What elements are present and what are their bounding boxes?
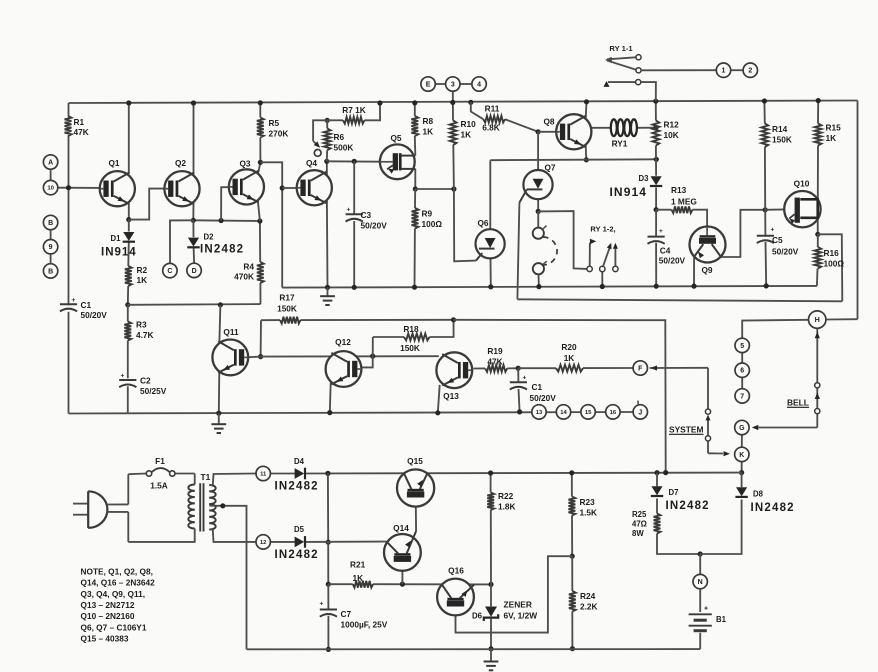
wire Q14 emitter to Q15 base [415,498,417,531]
label T1 [201,472,211,482]
resistor R15 1K [815,123,842,146]
terminal G [735,420,749,434]
arrow into G [752,425,759,430]
diode D2 IN2482 [187,233,244,256]
capacitor C1 50/20V (filter) [510,375,556,404]
wire R24 bottom lead [571,612,573,649]
wire R20 right lead to F [583,367,633,369]
terminal J [633,405,647,419]
svg-text:Q5: Q5 [390,133,401,143]
svg-text:50/20V: 50/20V [530,393,557,403]
svg-text:R9: R9 [422,209,433,219]
svg-text:150K: 150K [277,303,297,313]
svg-text:RY 1-1: RY 1-1 [609,44,633,53]
wire Q1 collector [128,103,130,174]
ground below zener [484,662,499,671]
svg-text:R16: R16 [824,248,840,258]
wire C1 bottom lead [519,389,520,412]
wire Q9 emitter drop [693,257,695,286]
terminal H [809,311,826,328]
svg-text:10K: 10K [664,130,679,140]
svg-text:R24: R24 [580,591,596,601]
resistor R11 6.8K [482,103,505,132]
wire terminal 3 drop [452,91,454,120]
wire Q6-anode node160 wire [490,158,656,161]
ground below Q4 [320,296,335,305]
node C4 bus [654,284,659,289]
wire B-9 link [50,230,52,240]
diode D1 IN914 [101,232,137,259]
node D3-R13-C4 junction [654,207,659,212]
svg-text:6V, 1/2W: 6V, 1/2W [504,611,538,621]
wire R18 left lead [373,336,404,338]
wire Q14 base stem [401,565,403,584]
resistor R19 47K [485,346,507,372]
wire R17 right lead [301,319,454,321]
wire SYSTEM to K [708,441,723,454]
wire Q2 emitter [192,203,194,221]
terminal 12 [256,535,270,549]
wire zener ground stub [490,649,492,661]
node Q2 emitter junction [191,218,196,223]
RY1-2 fixed pole 1 [587,239,596,272]
node D5 line junction [326,540,331,545]
wire D8 bottom lead [700,500,741,555]
svg-text:R7 1K: R7 1K [342,105,366,115]
wire R11 right lead [505,119,538,132]
wire to N terminal [699,554,701,574]
svg-text:C: C [167,268,172,275]
wire fuse loop top [128,473,194,476]
wire D3 to R13 node [655,188,657,210]
svg-text:500K: 500K [334,143,354,153]
arrow bell arm [815,393,820,400]
wire primary top drop [194,474,196,485]
capacitor C1 50/20V (left) [60,297,107,320]
svg-text:R21: R21 [350,560,366,570]
wire bell switch mid [816,388,818,409]
node R17-R18 junction [451,317,456,322]
svg-text:47Ω: 47Ω [632,520,647,529]
wire link 6-7 [741,377,743,388]
terminal C [163,263,177,277]
zener diode D6 6V 1/2W [472,600,537,622]
node Q5 emitter junction [413,186,418,191]
wire C1 top lead [517,368,519,382]
svg-text:R22: R22 [498,491,514,501]
wire R12 top lead [655,101,657,120]
svg-text:Q3, Q4, Q9, Q11,: Q3, Q4, Q9, Q11, [81,589,146,599]
svg-text:6.8K: 6.8K [482,123,500,133]
svg-text:IN2482: IN2482 [275,549,319,561]
wire R22 bottom lead [490,510,492,584]
wire R13 right lead to Q9 [693,210,708,227]
wire Q7 gate drop [517,203,519,300]
wire 9-B link [50,254,52,264]
fuse F1 1.5A [146,456,175,491]
node Q11 base junction [258,354,263,359]
node center tap [220,503,225,508]
wire R6 wiper arrow [313,141,320,148]
node D4 output junction [325,471,330,476]
svg-text:1K: 1K [423,127,434,137]
svg-text:R3: R3 [136,320,147,330]
node Q14 base junction [400,582,405,587]
wire left rail lower segment [68,312,70,414]
svg-text:J: J [638,409,642,416]
wire right rail down to H [857,101,859,320]
svg-text:1.5K: 1.5K [580,508,598,518]
wire R11 left lead [471,102,484,119]
svg-text:T1: T1 [201,472,211,482]
terminal K [735,447,749,461]
wire R23 top lead [571,473,573,497]
diode D3 IN914 [610,174,663,199]
svg-text:R15: R15 [826,123,842,133]
svg-text:C1: C1 [81,300,92,310]
node Q4 base tee [280,185,285,190]
node C7 bus [326,647,331,652]
node R19-R20-C1 junction [516,366,521,371]
battery B1 [689,606,727,631]
node R14-C5-Q10 junction [763,207,768,212]
wire R7 right lead [365,103,381,120]
wire lower bus y287 [282,286,817,288]
wire R3 to C2 [127,341,129,379]
wire Q10-emitter to gate line [818,234,843,301]
svg-text:IN2482: IN2482 [751,502,795,514]
wire Q5 collector lead [401,155,416,157]
svg-text:1.8K: 1.8K [498,502,516,512]
node R23 rail [569,470,574,475]
wire R9 bottom lead [414,229,416,288]
wire 11 to D4 [271,473,295,475]
capacitor C5 50/20V [757,227,799,257]
wire link 5-6 [741,353,743,363]
transistor Q8 [543,114,591,149]
wire terminal E to 3 [435,83,445,85]
wire R23 bottom lead [571,516,573,557]
svg-text:+: + [121,373,125,380]
node R14 rail [762,98,767,103]
svg-text:C1: C1 [532,382,543,392]
node junction 10-rail [66,185,71,190]
wire Q16 base loop [456,556,573,632]
wire Q3-collector to Q4-base riser [260,162,282,287]
terminal 6 [735,363,749,377]
svg-text:Q6, Q7 – C106Y1: Q6, Q7 – C106Y1 [81,622,147,632]
svg-text:Q15: Q15 [407,456,423,466]
svg-text:Q6: Q6 [477,218,488,228]
svg-text:47K: 47K [487,356,502,366]
svg-text:B: B [48,220,53,227]
svg-text:3: 3 [451,82,455,89]
wire sensor upper lead [537,211,539,227]
svg-text:D5: D5 [294,525,305,534]
transistor Q3 [229,159,264,205]
svg-text:C4: C4 [660,246,671,256]
node R22 zener junction [488,582,493,587]
svg-text:F: F [638,366,643,373]
svg-text:16: 16 [610,410,617,416]
svg-text:C3: C3 [361,210,372,220]
wire plug upper [127,474,129,504]
svg-text:IN2482: IN2482 [666,500,710,512]
wire R21 to zener node [373,583,491,585]
svg-text:1.5A: 1.5A [150,481,168,491]
wire sensor lower lead [538,274,540,286]
svg-text:Q4: Q4 [306,158,317,168]
wire Q11 base lead [248,356,260,359]
node R6 bottom junction [324,159,329,164]
diode D7 IN2482 [651,486,710,512]
svg-text:R18: R18 [403,324,419,334]
wire C4 bottom lead [655,243,657,286]
svg-text:R14: R14 [772,124,788,134]
wire Q4 base lead [282,187,297,189]
wire R4 bottom lead [259,283,261,304]
resistor R1 47K [65,116,89,137]
svg-text:470K: 470K [234,272,254,282]
wire H to column 567 [742,320,808,338]
svg-text:D1: D1 [111,234,122,243]
svg-text:150K: 150K [400,343,420,353]
svg-text:C2: C2 [140,376,151,386]
transistor Q10 [784,179,820,228]
svg-text:C7: C7 [341,609,352,619]
wire D7 top lead [656,473,658,487]
wire R5 bottom lead [259,138,261,163]
svg-text:2.2K: 2.2K [580,602,598,612]
svg-text:Q13: Q13 [443,391,459,401]
svg-text:50/20V: 50/20V [772,247,799,257]
capacitor C4 50/20V [648,228,686,266]
svg-text:Q7: Q7 [544,163,555,173]
svg-text:50/25V: 50/25V [140,386,167,396]
terminal 10 [43,180,57,194]
node K bus [739,470,744,475]
arrow into H [815,332,820,339]
node R24 bus [570,646,575,651]
arrow into F [651,365,658,370]
wire Q1 emitter [128,204,130,220]
wire node189 link [415,188,454,190]
AC plug [73,491,128,528]
wire zener top lead [490,584,492,606]
svg-text:F1: F1 [155,456,165,466]
svg-text:7: 7 [740,393,744,400]
node Q10 emitter junction [815,232,820,237]
resistor R4 470K [234,262,264,284]
wire Q11 emitter [218,371,221,414]
svg-text:11: 11 [260,472,267,478]
resistor R5 270K [257,118,288,139]
wire D7 to R25 [656,499,658,514]
terminal 11 [256,466,270,480]
node R18 vert tee [370,354,375,359]
svg-text:Q14: Q14 [393,523,409,533]
terminal 15 [581,405,595,419]
svg-text:+: + [347,207,351,214]
wire C2 to bus [127,386,129,413]
SYSTEM switch contact upper [705,409,710,414]
pot R6 wiper terminal [314,150,321,157]
wire R15 to Q10 collector [817,146,819,200]
wire cathode to RY1-2 [538,211,587,269]
node supply-R17 feed [663,470,668,475]
wire to terminal C [170,220,193,263]
svg-text:+: + [320,601,324,608]
svg-text:ZENER: ZENER [504,600,532,610]
capacitor C3 50/20V [346,207,388,231]
svg-text:R1: R1 [74,117,85,127]
node Q11 collector tee [218,302,223,307]
svg-text:BELL: BELL [787,397,809,407]
resistor R7 1K [342,105,366,124]
node R2-R3 junction [125,302,130,307]
node Q12 emitter bus [327,410,332,415]
wire R25 bottom lead [657,534,700,555]
svg-text:D8: D8 [753,490,764,499]
transistor Q15 [397,456,434,507]
node Q3 emitter R4 junction [257,218,262,223]
svg-text:K: K [739,452,744,459]
thyristor Q7 [519,163,556,203]
wire bottom bus y413 [69,412,633,414]
node C3 tee [352,159,357,164]
node Q6 cathode bus [488,284,493,289]
wire D1 cathode to R2 [127,242,130,266]
svg-text:R11: R11 [485,103,500,113]
svg-text:R23: R23 [580,497,596,507]
svg-text:1: 1 [722,68,726,75]
svg-text:14: 14 [560,410,567,416]
svg-text:R4: R4 [243,262,254,272]
wire D2 cathode to D [193,247,196,263]
svg-text:IN914: IN914 [101,247,137,259]
wire D5 to Q14 collector [306,541,387,543]
J key stub [637,401,639,405]
wire plug lower [127,512,129,542]
terminal 9 [43,240,57,254]
svg-text:R17: R17 [279,292,295,302]
wire SYSTEM switch drop [707,368,709,409]
wire R22 top lead [490,473,492,493]
svg-text:1000µF, 25V: 1000µF, 25V [341,620,388,630]
svg-text:B1: B1 [716,615,727,624]
wire C3 lower lead [353,221,355,287]
wire bottom supply bus y649 [247,648,701,650]
terminal A [43,155,57,169]
svg-text:R5: R5 [269,118,280,128]
terminal 2 [743,63,757,77]
transistor Q2 [164,158,199,206]
wire R18 right lead [430,320,454,337]
svg-text:+: + [659,228,663,235]
wire R12 to D3 [655,146,657,176]
svg-text:Q1: Q1 [108,158,119,168]
wire C5 bottom lead [765,242,768,286]
sensor contact lower [533,261,547,274]
wire R4 top lead [259,221,261,262]
svg-text:8W: 8W [632,529,644,538]
svg-text:+: + [523,375,527,382]
diode D8 IN2482 [735,487,794,514]
RY1-2 fixed pole 2 [613,243,618,272]
relay contact RY1-2 label [590,225,615,234]
wire ground stub Q4 [327,287,329,295]
wire gate line y301 [517,299,842,301]
svg-text:Q2: Q2 [175,158,186,168]
node R11 rail [468,100,473,105]
svg-text:1 MEG: 1 MEG [671,196,697,206]
wire node356 [261,355,439,357]
node Q1 emitter junction [126,217,131,222]
wire C7 to bottom bus [327,616,329,650]
wire Q3 emitter [258,201,260,221]
node sensor bus [536,284,541,289]
svg-text:50/20V: 50/20V [81,310,108,320]
transistor Q9 [690,227,726,275]
svg-text:Q13 – 2N2712: Q13 – 2N2712 [81,600,135,610]
wire D1 anode lead [128,220,130,232]
wire Q5 emitter lead [401,168,416,170]
node C3 bus [352,285,357,290]
wire secondary top lead [213,474,256,486]
terminal E [421,77,435,91]
svg-text:H: H [815,315,820,324]
wire Q3 collector [258,162,260,173]
svg-text:R20: R20 [561,342,577,352]
capacitor C2 50/25V [119,373,167,397]
wire terminal 10 to Q1 base [58,187,100,189]
svg-text:D2: D2 [204,233,215,242]
svg-text:R8: R8 [423,116,434,126]
terminal 3 [446,77,460,91]
wire bell switch upper [816,328,818,382]
relay contact RY1-1 [605,44,716,73]
wire R7 left lead [327,119,343,121]
wire Q5 emitter down [414,169,416,189]
svg-text:R19: R19 [487,346,503,356]
wire A-10 link [50,169,52,180]
svg-text:+: + [704,606,708,613]
wire Q8 collector [585,102,588,119]
node Q3 collector junction [258,160,263,165]
relay coil RY1 [611,119,637,148]
wire Q2 collector [193,103,195,175]
wire Q8 base lead [538,131,556,133]
potentiometer R6 500K [324,129,354,153]
svg-text:Q10: Q10 [794,179,810,189]
wire Q4 emitter [326,201,329,288]
wire H to right rail [826,318,858,320]
capacitor C7 1000uF 25V [320,601,388,630]
wire Q12 emitter [329,383,332,413]
wire Q10 base lead [765,208,784,210]
terminal 14 [556,405,570,419]
RY1-2 moving arm [600,243,612,272]
wire R21 line left lead [328,583,353,585]
wire R10 to Q6 gate [453,145,476,261]
svg-text:4: 4 [477,82,481,89]
terminal 13 [532,405,546,419]
svg-text:Q10 – 2N2160: Q10 – 2N2160 [81,611,135,621]
wire R16 bottom lead [816,269,819,286]
svg-text:D7: D7 [669,488,679,497]
arrow into K [724,451,731,456]
svg-text:R2: R2 [137,265,148,275]
